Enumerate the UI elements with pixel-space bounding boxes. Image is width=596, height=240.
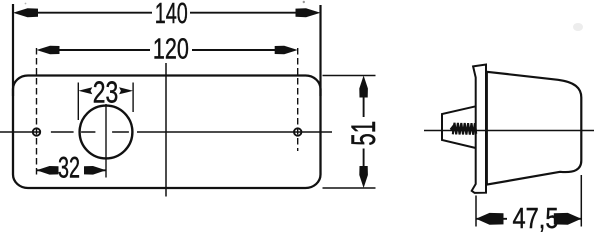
dimension 32 line stubs <box>37 169 59 171</box>
scan smudge <box>573 23 583 31</box>
svg-text:140: 140 <box>155 0 188 30</box>
dimension 51 arrow bottom <box>359 166 368 188</box>
front view horizontal centerline <box>0 131 332 133</box>
side view horizontal centerline <box>424 130 594 132</box>
dimension 23 extension left <box>77 83 79 121</box>
front view vertical center axis <box>165 63 167 197</box>
dimension 47.5 extension right <box>580 175 582 227</box>
left screw hole <box>33 128 40 135</box>
lamp body (side view) <box>487 72 582 185</box>
dimension 51 extension bottom <box>323 187 376 189</box>
scan speck <box>303 1 305 3</box>
dimension 47.5 arrow right <box>554 213 582 225</box>
svg-text:32: 32 <box>58 152 80 185</box>
dimension 140 arrow right <box>296 8 321 17</box>
dimension 140 line <box>31 12 152 14</box>
dimension 23 arrow right <box>119 87 133 94</box>
dimension 23 arrow left <box>78 87 92 94</box>
right screw hole <box>294 128 301 135</box>
svg-text:51: 51 <box>345 121 383 146</box>
dimension 47.5 extension left <box>475 196 477 227</box>
mounting boss (trapezoid) <box>442 106 476 148</box>
svg-text:23: 23 <box>93 75 119 110</box>
dimension 32 arrow right <box>84 166 106 175</box>
dimension 51 line <box>363 90 365 117</box>
dimension 32 arrow left <box>37 166 59 175</box>
dimension 47.5 line stubs <box>476 218 507 220</box>
dimension 47.5 arrow left <box>476 213 504 225</box>
lamp body outline (front view) <box>13 76 321 189</box>
dimension 51 arrow top <box>359 76 368 98</box>
dimension 120 arrow right <box>275 46 298 55</box>
mounting flange plate <box>472 65 486 193</box>
dimension 120 line <box>53 49 150 51</box>
dashed line through left hole <box>36 48 38 178</box>
dimension 140 arrow left <box>13 8 38 17</box>
screw tip <box>450 124 454 133</box>
dimension 23 extension right <box>132 83 134 113</box>
dimension 140 extension right <box>319 5 321 96</box>
dimension 51 extension top <box>323 75 376 77</box>
dimension 140 extension left <box>12 4 14 96</box>
dashed line through right hole <box>297 48 299 151</box>
svg-text:47,5: 47,5 <box>513 203 559 233</box>
circle vertical centerline <box>105 104 107 178</box>
svg-text:120: 120 <box>153 33 189 65</box>
screw thread <box>453 123 476 135</box>
dimension 120 arrow left <box>37 46 60 55</box>
scan speck <box>25 3 27 5</box>
lens hole circle <box>80 106 133 159</box>
